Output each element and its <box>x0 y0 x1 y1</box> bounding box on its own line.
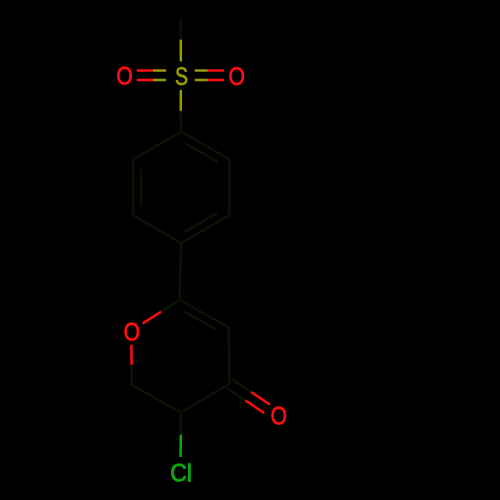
bond C4'=O line2 oxygen half <box>246 401 265 414</box>
svg-text:O: O <box>124 318 140 346</box>
bond C6-C1 benzene <box>133 132 181 160</box>
bond S=O right line2 sulfur half <box>195 79 208 82</box>
bond S=O left line2 sulfur half <box>153 79 166 82</box>
svg-text:Cl: Cl <box>170 460 192 488</box>
bond C4-C5 benzene <box>133 215 181 243</box>
bond S=O right line1 red half <box>208 69 224 72</box>
bond S=O right line2 red half <box>208 79 224 82</box>
benzene double bond inner line 1 <box>185 143 218 162</box>
bond C2'-O1 carbon half <box>161 300 179 312</box>
bond C1-C2 benzene <box>181 132 229 160</box>
bond C5'-C6' <box>132 385 181 413</box>
bond C2'=C3' inner line <box>184 311 217 330</box>
bond S-C1 carbon half <box>180 111 183 132</box>
svg-text:O: O <box>271 402 287 430</box>
bond S=O left line1 sulfur half <box>153 69 166 72</box>
bond C2'-C3' main <box>180 300 229 328</box>
benzene double bond inner line 2 <box>185 213 218 232</box>
bond C5'-Cl carbon half <box>180 413 183 435</box>
bond C5-C6 benzene <box>132 159 135 215</box>
bond C4'-C5' <box>181 384 230 413</box>
bond S=O left line2 red half <box>137 79 153 82</box>
bond S=O left line1 red half <box>137 69 153 72</box>
bond C4'=O line1 carbon half <box>232 379 251 392</box>
svg-text:O: O <box>228 62 244 90</box>
bond C4'=O line2 carbon half <box>227 388 246 401</box>
bond S-C1 sulfur half <box>180 90 183 111</box>
bond CH3-S carbon half <box>180 19 183 40</box>
bond CH3-S sulfur half <box>180 40 183 62</box>
bond C5'-Cl chlorine half <box>179 435 182 457</box>
bond O1-C6' carbon half <box>130 365 133 385</box>
bond S=O right line1 sulfur half <box>195 69 208 72</box>
benzene double bond inner line 3 <box>140 168 143 206</box>
bond O1-C6' oxygen half <box>130 345 133 365</box>
bond C3'-C4' <box>227 327 230 383</box>
svg-text:S: S <box>175 63 188 91</box>
svg-text:O: O <box>116 62 132 90</box>
bond C4'=O line1 oxygen half <box>251 392 270 405</box>
bond C3-C4 benzene <box>181 215 229 243</box>
bond C2'-O1 oxygen half <box>143 312 162 324</box>
bond C2-C3 benzene <box>228 159 231 215</box>
bond aryl-C2' link <box>180 243 182 300</box>
